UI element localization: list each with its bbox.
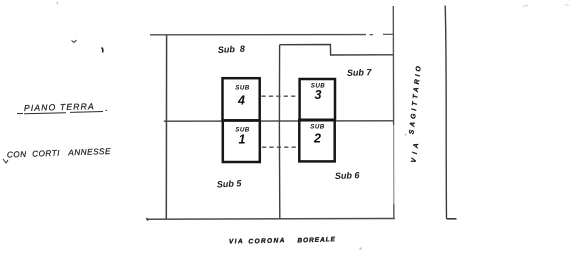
middle horizontal line [164,120,394,122]
stray ink mark (check) [72,40,77,43]
svg-text:1: 1 [239,132,246,146]
svg-text:Sub 5: Sub 5 [217,178,243,189]
piano terra caption [17,101,107,114]
sub 2 box [299,120,334,162]
parcel bottom boundary [147,218,395,221]
building top edge with step (sub 7 boundary) [280,45,394,56]
svg-text:BOREALE: BOREALE [297,236,336,244]
sub 3 box [300,79,335,120]
sub 1 box labels [235,127,250,147]
via corona boreale street name [229,236,336,245]
street line via sagittario far side [445,6,456,219]
svg-text:PIANO TERRA: PIANO TERRA [24,101,95,113]
faint speck below boreale [359,247,361,249]
con corti annesse caption [3,147,111,163]
svg-text:SAGITTARIO: SAGITTARIO [409,63,423,135]
parcel right boundary along via sagittario [392,6,395,219]
svg-text:4: 4 [237,94,245,108]
svg-text:VIA: VIA [229,238,244,246]
connection dashes between sub1 and sub2 [262,146,298,148]
sub 4 box labels [235,85,250,108]
svg-text:CON CORTI ANNESSE: CON CORTI ANNESSE [7,147,111,160]
parcel top boundary [150,33,394,35]
stray ink mark (comma) [102,48,103,53]
faint speck right of parcel [405,134,407,136]
sub 2 box labels [310,124,325,146]
faint smudges top right [523,5,528,7]
connection dashes between sub4 and sub3 [262,95,299,97]
svg-text:Sub 8: Sub 8 [218,44,246,55]
svg-text:3: 3 [315,88,322,102]
svg-text:SUB: SUB [310,124,325,131]
parcel left boundary [165,35,167,219]
courtyard divider [278,45,280,219]
svg-text:CORONA: CORONA [248,237,286,245]
svg-text:SUB: SUB [235,85,250,92]
svg-text:Sub 7: Sub 7 [347,67,373,78]
faint plus speck top left [56,2,59,5]
sub 4 box [223,78,260,120]
svg-text:Sub 6: Sub 6 [335,170,361,181]
via sagittario street name (vertical) [409,63,423,163]
svg-text:2: 2 [313,131,321,145]
svg-text:VIA: VIA [411,139,421,164]
sub 1 box [223,120,260,162]
sub 3 box labels [311,83,326,102]
